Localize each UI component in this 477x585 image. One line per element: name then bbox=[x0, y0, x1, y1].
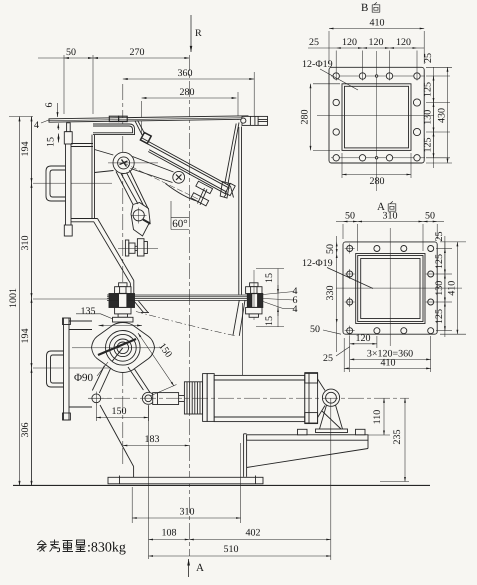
piston rod bbox=[179, 396, 185, 402]
upper handle bbox=[46, 166, 66, 201]
svg-text:50: 50 bbox=[325, 244, 336, 254]
svg-text:194: 194 bbox=[20, 329, 31, 344]
svg-text:125: 125 bbox=[434, 309, 445, 324]
B dim 410 top bbox=[329, 18, 424, 65]
pivot bracket arms bbox=[95, 150, 114, 173]
hopper left sloped wall bbox=[93, 124, 135, 135]
svg-text:330: 330 bbox=[325, 286, 336, 301]
A label 25 bottom-left bbox=[323, 347, 350, 365]
gate pivot bearing bbox=[108, 152, 158, 173]
B dim chain right 125/130/125 bbox=[423, 67, 451, 168]
svg-text:410: 410 bbox=[381, 358, 396, 369]
dim 50 top bbox=[38, 47, 93, 114]
A dim 330 left bbox=[325, 254, 337, 353]
frame bottom shelf bbox=[71, 219, 98, 222]
joint support legs bbox=[134, 301, 149, 313]
svg-text:306: 306 bbox=[20, 423, 31, 438]
svg-text:410: 410 bbox=[370, 18, 385, 29]
joint left screw assembly bbox=[109, 283, 135, 318]
main vertical centerline bbox=[122, 84, 124, 467]
svg-text:310: 310 bbox=[20, 236, 31, 251]
svg-text:50: 50 bbox=[345, 211, 355, 222]
svg-text:15: 15 bbox=[46, 137, 57, 147]
left vertical flange plate lower bbox=[63, 318, 71, 420]
dim 1001 left bbox=[8, 117, 33, 486]
link arms to pins bbox=[92, 366, 150, 394]
dim 183 bbox=[123, 434, 190, 446]
left hinge lug on plate bbox=[109, 116, 127, 121]
A dim chain top 50/310/50 bbox=[336, 211, 444, 252]
shaft crank bold line bbox=[98, 339, 136, 362]
arm lower curved edge bbox=[166, 184, 199, 202]
svg-text:150: 150 bbox=[112, 406, 127, 417]
support column bbox=[244, 434, 247, 477]
svg-text:402: 402 bbox=[246, 528, 261, 539]
counterweight fork arms bbox=[116, 170, 148, 209]
dim 135 bbox=[76, 306, 142, 326]
gate seat plate bbox=[148, 150, 233, 198]
dim 108 bbox=[149, 405, 190, 559]
B view title bbox=[361, 2, 380, 14]
svg-text:B: B bbox=[361, 2, 368, 14]
svg-text:50: 50 bbox=[310, 324, 320, 335]
svg-text:194: 194 bbox=[20, 142, 31, 157]
clevis taper bbox=[318, 379, 325, 418]
A flange outer bbox=[343, 242, 437, 334]
60 degree angle annotation bbox=[171, 201, 189, 230]
pedestal under eye bbox=[316, 405, 348, 433]
right wall tilted piece below joint bbox=[233, 300, 245, 336]
A dim 50 left upper bbox=[325, 236, 337, 256]
cylinder centerline bbox=[88, 397, 409, 399]
svg-text:60°: 60° bbox=[172, 218, 187, 230]
svg-text:125: 125 bbox=[434, 254, 445, 269]
B bolt holes bbox=[333, 73, 421, 161]
svg-text:130: 130 bbox=[434, 281, 445, 296]
counterweight lever bracket bbox=[131, 203, 151, 237]
svg-text:120: 120 bbox=[396, 37, 411, 48]
svg-text:125: 125 bbox=[423, 138, 434, 153]
clevis eye bbox=[322, 389, 339, 406]
mount bar bbox=[247, 429, 368, 440]
cylinder barrel bbox=[214, 375, 305, 421]
bearing housing diamond bbox=[92, 323, 155, 373]
A view title bbox=[377, 201, 396, 213]
A dim 410 right bbox=[440, 242, 466, 334]
svg-text:25: 25 bbox=[323, 353, 333, 364]
lower body shelves bbox=[69, 321, 92, 407]
svg-text:108: 108 bbox=[162, 528, 177, 539]
A flange opening triple bbox=[356, 254, 425, 324]
svg-text:110: 110 bbox=[372, 410, 383, 425]
svg-text:120: 120 bbox=[369, 37, 384, 48]
A label 50 bottom-left bbox=[310, 324, 341, 335]
svg-text:1001: 1001 bbox=[8, 288, 19, 308]
arm centerline dashed bbox=[124, 163, 199, 200]
dims 15 4 6 4 15 at joint bbox=[256, 269, 298, 328]
svg-text:12-Φ19: 12-Φ19 bbox=[302, 59, 333, 70]
body joint flange plates bbox=[107, 295, 255, 300]
dim 270 top bbox=[93, 47, 189, 58]
svg-text:310: 310 bbox=[383, 211, 398, 222]
dim 150 diagonal bbox=[138, 333, 177, 396]
svg-text:Φ90: Φ90 bbox=[74, 372, 94, 384]
right wall lower vertical bbox=[242, 303, 244, 375]
cylinder front flange bbox=[203, 374, 215, 422]
funnel left steep wall bbox=[135, 120, 145, 135]
weight note 参考重量:830kg bbox=[37, 540, 86, 552]
B dim 280 left bbox=[300, 84, 341, 151]
gate clamp bolt bbox=[173, 171, 185, 183]
gate end stiffener bbox=[225, 183, 235, 195]
flap gate inclined plate bbox=[141, 138, 231, 188]
T-bolt nut bars bbox=[191, 181, 213, 206]
left vertical flange plate upper bbox=[64, 123, 72, 236]
bearing housing neck bbox=[113, 317, 134, 322]
svg-text:25: 25 bbox=[434, 232, 445, 242]
svg-text:280: 280 bbox=[300, 110, 311, 125]
A dim chain right 25/125/130/125 bbox=[434, 232, 466, 338]
A direction arrow bbox=[189, 559, 204, 577]
B dim 280 bottom bbox=[342, 153, 411, 187]
B flange opening bbox=[342, 84, 411, 151]
dim 150 horizontal bbox=[96, 404, 148, 422]
A left bolt crosses bbox=[345, 244, 436, 336]
B flange outer bbox=[329, 67, 424, 163]
svg-text:310: 310 bbox=[180, 507, 195, 518]
dim chain 194/310/194/306 left bbox=[20, 117, 112, 486]
svg-text:6: 6 bbox=[44, 103, 55, 108]
svg-text:235: 235 bbox=[392, 430, 403, 445]
gate swing arc dashed bbox=[136, 312, 237, 337]
A label 12-phi19 bbox=[302, 258, 373, 289]
svg-text:4: 4 bbox=[293, 304, 298, 315]
B dim 430 bbox=[426, 67, 452, 163]
frame top shelf bbox=[71, 144, 93, 147]
guide roller assembly bbox=[118, 239, 158, 256]
A centerlines bbox=[336, 228, 462, 346]
hopper right wall bbox=[239, 127, 242, 295]
support leg diagonal bbox=[100, 405, 134, 477]
lower handle bbox=[47, 351, 64, 387]
dim 402 bbox=[189, 398, 330, 560]
cylinder rod clevis bbox=[153, 393, 179, 405]
dim 110 bbox=[368, 398, 390, 435]
svg-text:25: 25 bbox=[309, 37, 319, 48]
svg-text:135: 135 bbox=[81, 306, 96, 317]
right wall hinge deflector bbox=[220, 123, 239, 199]
ground line bbox=[13, 484, 430, 486]
svg-text:15: 15 bbox=[264, 316, 275, 326]
svg-text:4: 4 bbox=[34, 120, 39, 131]
section centerline through machine bbox=[188, 55, 190, 556]
svg-text:50: 50 bbox=[425, 211, 435, 222]
svg-text:183: 183 bbox=[145, 434, 160, 445]
svg-text:280: 280 bbox=[180, 87, 195, 98]
base plate bbox=[108, 476, 263, 484]
dim 360 bbox=[123, 68, 254, 116]
svg-text::830kg: :830kg bbox=[87, 541, 126, 556]
chute diagonal wall bbox=[94, 219, 134, 295]
svg-text:50: 50 bbox=[66, 47, 76, 58]
A bolt holes bbox=[347, 246, 434, 334]
dim 235 bbox=[380, 398, 409, 481]
svg-text:270: 270 bbox=[130, 47, 145, 58]
right hinge lug on plate bbox=[241, 116, 268, 125]
dim 510 bbox=[149, 544, 331, 556]
svg-text:A: A bbox=[196, 562, 204, 574]
ribbed coupling bbox=[184, 382, 202, 414]
label phi90 bbox=[74, 362, 108, 384]
tapered gusset bbox=[247, 440, 368, 467]
dim 310 bottom bbox=[132, 443, 240, 523]
joint right bolt assembly bbox=[246, 270, 263, 320]
bearing circles bbox=[72, 331, 162, 366]
svg-text:25: 25 bbox=[423, 53, 434, 63]
svg-text:R: R bbox=[195, 28, 202, 39]
arm pivot to clamp bolt bbox=[131, 157, 174, 183]
gate adjusting T-bolt shaft bbox=[198, 188, 208, 205]
svg-text:125: 125 bbox=[423, 82, 434, 97]
B centerlines bbox=[317, 51, 434, 191]
frame web plate bbox=[92, 135, 95, 219]
B label 12-phi19 bbox=[302, 59, 358, 90]
dim 280 gate span bbox=[142, 87, 239, 134]
cylinder rear head bbox=[305, 373, 318, 424]
svg-text:410: 410 bbox=[446, 281, 457, 296]
svg-text:120: 120 bbox=[342, 37, 357, 48]
A dims bottom 120 / 3x120=360 / 410 bbox=[344, 333, 431, 372]
svg-text:430: 430 bbox=[437, 108, 448, 123]
svg-text:150: 150 bbox=[156, 341, 174, 360]
svg-text:280: 280 bbox=[370, 176, 385, 187]
svg-text:15: 15 bbox=[264, 273, 275, 283]
B dim chain 25/120/120/120 bbox=[308, 37, 434, 81]
thickness labels 6 / 4 / 15 top-left bbox=[34, 103, 59, 148]
svg-text:120: 120 bbox=[356, 333, 371, 344]
R direction arrow bbox=[191, 15, 202, 52]
right link pin bbox=[142, 392, 154, 404]
svg-text:510: 510 bbox=[224, 544, 239, 555]
svg-text:130: 130 bbox=[423, 110, 434, 125]
svg-text:12-Φ19: 12-Φ19 bbox=[302, 258, 333, 269]
top flange plate bbox=[49, 116, 248, 122]
left link pin bbox=[88, 392, 112, 406]
svg-text:360: 360 bbox=[178, 68, 193, 79]
